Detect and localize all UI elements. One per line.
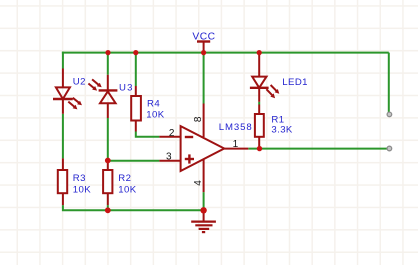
wire LED1 cathode to R1 top xyxy=(258,102,260,105)
VCC supply symbol bar xyxy=(197,40,210,42)
svg-text:U3: U3 xyxy=(119,83,134,94)
svg-text:3: 3 xyxy=(166,152,172,163)
svg-text:R2: R2 xyxy=(118,173,131,184)
diode U2 triangle xyxy=(56,87,70,99)
op-amp U1 output pin 1 lead xyxy=(224,148,248,150)
resistor R2 body xyxy=(103,170,112,193)
svg-text:3.3K: 3.3K xyxy=(271,125,293,136)
wire U3 anode to node A xyxy=(107,118,109,160)
wire rail to U2 anode xyxy=(62,52,64,69)
wire rail to U3 cathode xyxy=(107,53,109,75)
ground symbol stub xyxy=(203,210,205,222)
resistor R4 bottom pin xyxy=(135,121,137,132)
photodiode U3 incoming arrow 1 xyxy=(92,79,99,85)
wire U2 cathode to R3 node xyxy=(62,114,64,159)
port dot output right xyxy=(387,146,392,151)
svg-text:U2: U2 xyxy=(73,77,86,88)
op-amp U1 pin 8 lead xyxy=(203,104,205,138)
diode U2 emission arrow 2 xyxy=(68,102,75,108)
photodiode U3 anode pin xyxy=(107,103,109,118)
photodiode U3 incoming arrow 2 xyxy=(88,84,94,89)
resistor R3 body xyxy=(58,170,67,193)
resistor R3 bottom pin xyxy=(62,193,64,205)
resistor R3 top pin xyxy=(62,158,64,170)
svg-text:4: 4 xyxy=(193,180,204,186)
resistor R1 body xyxy=(255,114,264,137)
VCC supply symbol stub xyxy=(203,42,205,53)
resistor R1 top pin xyxy=(258,105,260,115)
LED LED1 cathode pin xyxy=(258,88,260,102)
svg-text:2: 2 xyxy=(169,128,175,139)
wire VCC top rail xyxy=(62,52,389,54)
svg-text:R3: R3 xyxy=(73,173,86,184)
wire op-amp output to port xyxy=(248,148,389,150)
svg-text:R4: R4 xyxy=(147,98,160,109)
resistor R1 bottom pin xyxy=(258,137,260,149)
photodiode U3 cathode bar xyxy=(99,89,118,91)
resistor R4 body xyxy=(131,96,141,121)
op-amp U1 pin 3 lead xyxy=(159,160,180,162)
LED LED1 triangle xyxy=(252,77,266,88)
diode U2 cathode bar xyxy=(53,98,73,100)
svg-text:LED1: LED1 xyxy=(282,77,308,88)
junction on rail at R4 column xyxy=(133,50,138,55)
op-amp U1 minus symbol xyxy=(185,136,193,138)
junction node A at R2 top xyxy=(105,158,111,164)
junction output node at R1 bottom xyxy=(257,146,262,151)
LED LED1 emission arrow 2 xyxy=(266,89,273,96)
LED LED1 anode pin xyxy=(258,53,260,77)
svg-text:LM358: LM358 xyxy=(219,122,253,133)
diode U2 emission arrow 1 xyxy=(73,98,80,103)
LED LED1 emission arrow 1 xyxy=(271,85,277,91)
resistor R2 bottom pin xyxy=(107,193,109,205)
photodiode U3 cathode pin xyxy=(107,75,109,91)
resistor R2 top pin xyxy=(107,160,109,170)
wire right drop from rail to port xyxy=(388,53,390,114)
wire op-amp pin 4 to ground node xyxy=(203,192,205,210)
junction ground node at pin 4 xyxy=(200,207,206,213)
wire node A to op-amp pin 3 xyxy=(108,160,160,162)
svg-text:8: 8 xyxy=(193,116,204,122)
op-amp U1 pin 2 lead xyxy=(159,136,180,138)
diode U2 anode pin xyxy=(62,69,64,88)
svg-text:VCC: VCC xyxy=(192,32,215,43)
svg-text:10K: 10K xyxy=(118,185,136,196)
ground symbol bars xyxy=(191,222,216,233)
wire R2 bottom to ground rail xyxy=(107,205,109,210)
port dot upper right xyxy=(387,112,392,117)
diode U2 cathode pin xyxy=(62,99,64,114)
wire R4 bottom to op-amp pin 2 xyxy=(136,132,160,137)
photodiode U3 triangle xyxy=(100,91,116,103)
resistor R4 top pin xyxy=(135,86,137,96)
junction ground rail at R2 column xyxy=(105,207,111,213)
junction on rail at VCC xyxy=(201,50,206,55)
junction on rail at LED1 column xyxy=(257,50,262,55)
LED LED1 cathode bar xyxy=(250,87,269,89)
junction on rail at U3 column xyxy=(105,50,110,55)
op-amp U1 pin 4 lead xyxy=(203,159,205,192)
wire rail to R4 top xyxy=(135,53,137,86)
svg-text:1: 1 xyxy=(233,139,239,150)
wire rail to op-amp pin 8 xyxy=(203,53,205,104)
op-amp U1 triangle body xyxy=(181,126,225,171)
op-amp U1 plus symbol xyxy=(185,154,194,163)
svg-text:10K: 10K xyxy=(73,185,91,196)
svg-text:10K: 10K xyxy=(146,109,164,120)
wire R3 bottom to ground rail xyxy=(63,205,204,210)
